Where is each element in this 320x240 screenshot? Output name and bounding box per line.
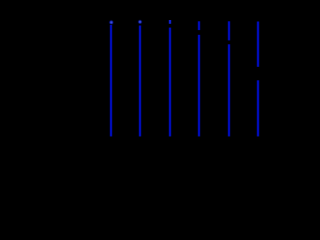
string 6 line	[257, 80, 259, 136]
string 5 line	[228, 44, 230, 136]
string 3 line	[169, 28, 171, 137]
string 1 highlight dot	[108, 19, 114, 25]
string 5 top segment	[228, 21, 230, 40]
string 2 highlight dot	[137, 19, 143, 25]
string 4 line	[198, 35, 200, 137]
string 6 top segment	[257, 22, 259, 67]
string 4 top segment	[198, 21, 200, 30]
string 3 highlight segment	[169, 20, 171, 24]
string 1 line	[110, 25, 112, 137]
string 2 line	[139, 26, 141, 137]
